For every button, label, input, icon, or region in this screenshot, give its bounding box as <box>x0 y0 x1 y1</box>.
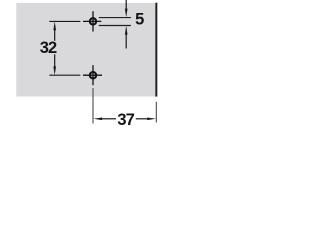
dimension 32: dimension line with arrows <box>53 21 56 75</box>
dimension 37: dimension line with arrows <box>93 117 156 120</box>
dimension 5: lower arrow (pointing up) <box>125 26 128 49</box>
slot lines (oblong hole edges) <box>99 18 131 26</box>
dimension 5: upper arrow (pointing down) <box>125 0 128 17</box>
svg-text:32: 32 <box>40 39 57 57</box>
hole H1 (upper crosshair) <box>83 11 101 31</box>
panel (cabinet side, gray) <box>16 3 155 97</box>
dimension 32: bottom extension line <box>49 74 80 76</box>
hole H2 (lower crosshair) <box>83 65 102 85</box>
dimension 37: right extension line (from panel front edge) <box>155 102 157 123</box>
svg-text:5: 5 <box>135 11 144 29</box>
svg-text:37: 37 <box>117 111 134 129</box>
dimension 32: top extension line <box>49 20 80 22</box>
dimension 37: left extension line (from hole H2) <box>92 88 94 124</box>
panel front edge (thick black line) <box>155 3 157 97</box>
